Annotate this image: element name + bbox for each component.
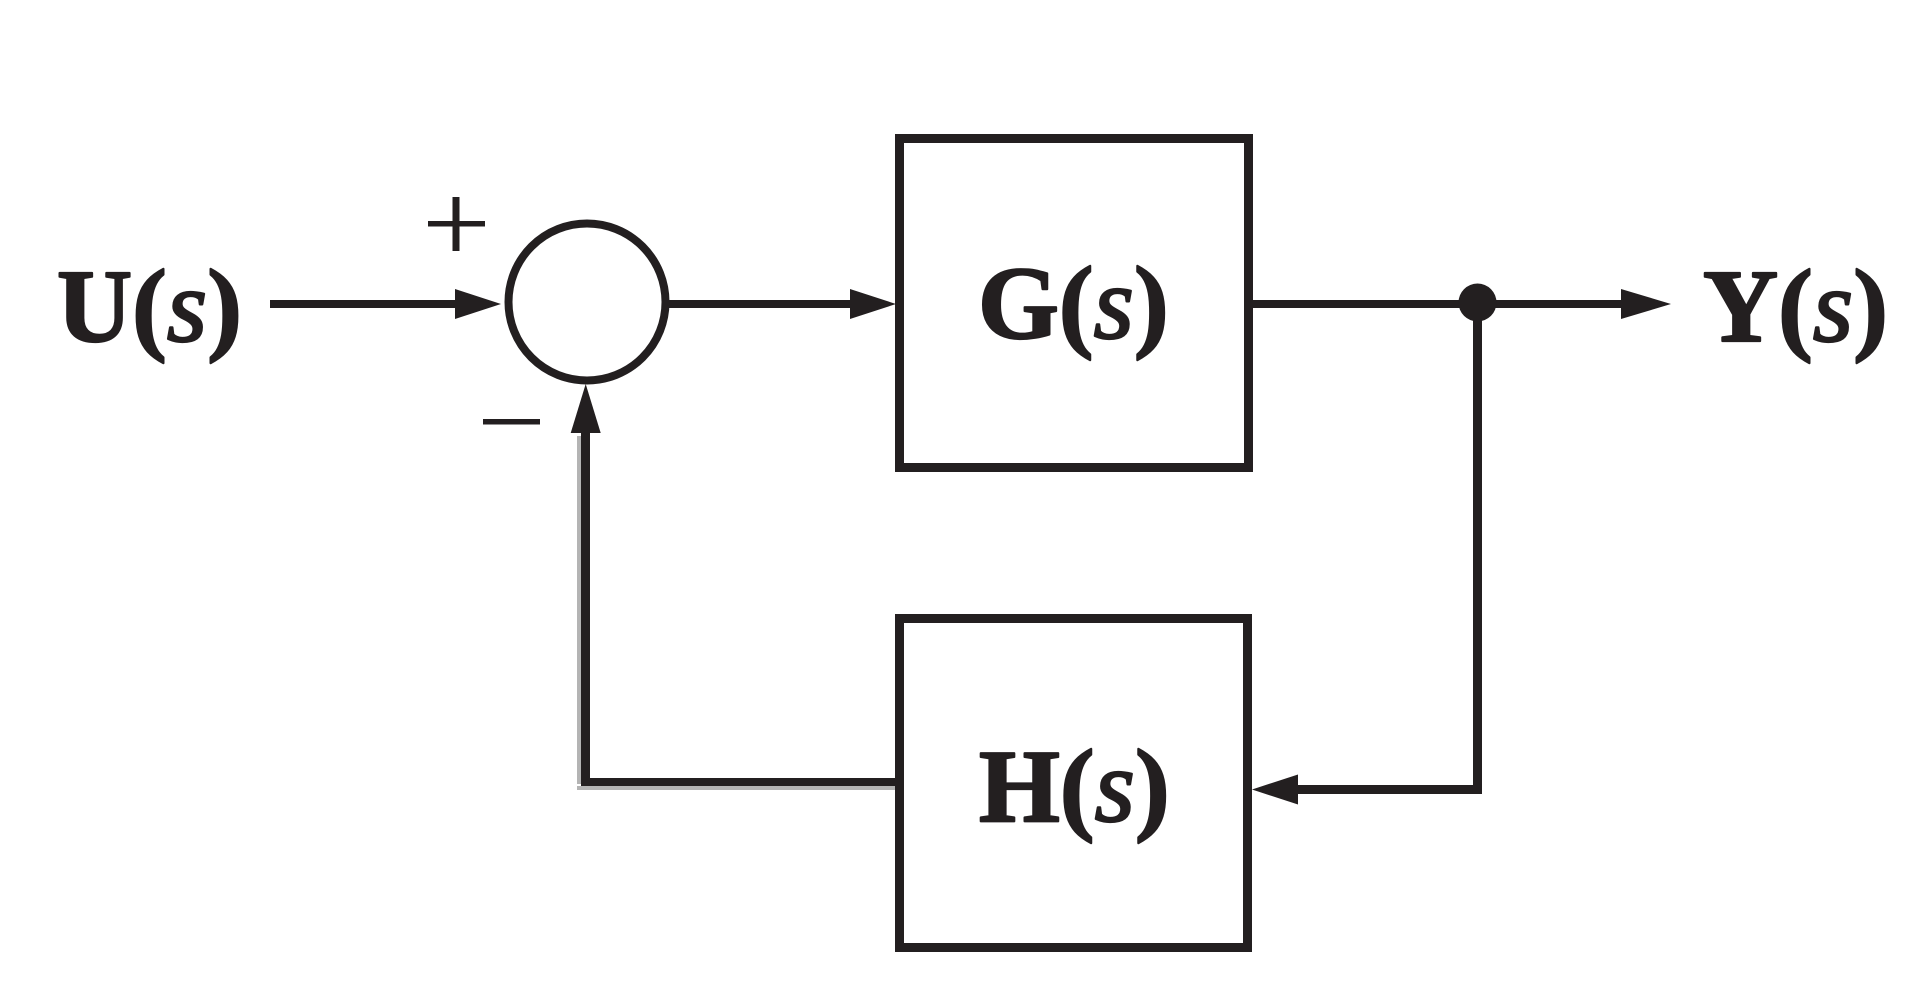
- wire feedback right horizontal: [1297, 785, 1482, 794]
- arrowhead into G(s): [850, 289, 896, 319]
- wire node down to feedback corner: [1473, 302, 1482, 794]
- svg-text:H(s): H(s): [979, 729, 1170, 844]
- minus sign label: [483, 419, 540, 425]
- block G: [900, 139, 1249, 468]
- wire shadow artifact under feedback left horizontal: [577, 786, 895, 790]
- arrowhead into H(s) right side: [1252, 775, 1298, 805]
- wire summing junction to G(s): [669, 300, 851, 308]
- output arrowhead: [1621, 289, 1671, 319]
- wire feedback left horizontal: [581, 778, 895, 786]
- svg-text:U(s): U(s): [57, 249, 242, 364]
- wire shadow artifact left of feedback vertical: [577, 436, 581, 784]
- input arrowhead into summing junction: [455, 289, 501, 319]
- block H: [900, 619, 1248, 948]
- svg-text:Y(s): Y(s): [1703, 249, 1888, 364]
- svg-text:G(s): G(s): [978, 246, 1169, 361]
- wire input arrow shaft: [270, 300, 458, 308]
- node junction dot: [1459, 284, 1497, 322]
- plus sign label: [428, 197, 485, 251]
- summing junction circle: [509, 224, 666, 381]
- wire G(s) to output: [1253, 300, 1622, 308]
- arrowhead into summing junction bottom: [571, 384, 601, 433]
- wire feedback up to summing junction: [581, 430, 590, 786]
